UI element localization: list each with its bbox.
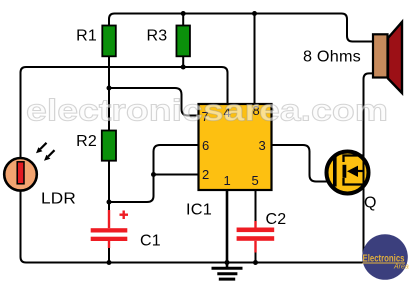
wire C1 bottom to ground rail bbox=[108, 247, 110, 263]
svg-text:Area: Area bbox=[393, 264, 409, 271]
svg-text:8 Ohms: 8 Ohms bbox=[303, 49, 361, 66]
wire top rail from R1 top to speaker bbox=[109, 14, 374, 42]
wire IC pin 3 to MOSFET gate bbox=[271, 145, 336, 182]
svg-text:LDR: LDR bbox=[41, 191, 76, 208]
resistor R1 bbox=[102, 26, 116, 57]
speaker cone bbox=[388, 22, 402, 93]
node junction R3 bottom bbox=[181, 65, 186, 70]
MOSFET channel middle segment bbox=[343, 165, 347, 178]
svg-text:C1: C1 bbox=[140, 233, 161, 250]
svg-text:electronicsarea.com: electronicsarea.com bbox=[26, 93, 388, 128]
svg-text:5: 5 bbox=[252, 173, 259, 188]
transistor Q MOSFET body bbox=[327, 152, 369, 194]
capacitor C1 bbox=[91, 210, 128, 248]
wire node B to IC pin 6 bbox=[109, 145, 199, 202]
wire R3 bottom lead bbox=[182, 56, 184, 67]
wire LDR top to pin 4 rail bbox=[21, 67, 228, 158]
svg-text:2: 2 bbox=[202, 167, 209, 182]
node junction pin1 ground bbox=[225, 260, 230, 265]
node junction C2 bottom bbox=[253, 260, 258, 265]
resistor R2 bbox=[102, 131, 116, 161]
wire R1 bottom to R2 top bbox=[108, 56, 110, 131]
MOSFET channel bottom segment and source stub bbox=[344, 178, 364, 185]
svg-text:IC1: IC1 bbox=[186, 202, 212, 219]
node junction pin2 branch bbox=[151, 172, 156, 177]
wire branch to IC pin 2 bbox=[154, 174, 200, 176]
svg-text:C2: C2 bbox=[266, 211, 287, 228]
wire R2 bottom to node B bbox=[108, 161, 110, 203]
wire node A to IC pin 7 bbox=[109, 88, 199, 116]
IC IC1 555 timer body bbox=[199, 104, 272, 190]
Electronics Area logo bbox=[362, 234, 409, 280]
resistor R3 bbox=[176, 26, 190, 57]
svg-text:R2: R2 bbox=[76, 133, 97, 150]
LDR inner element bbox=[17, 162, 24, 184]
MOSFET drain-source wire through body bbox=[363, 150, 365, 196]
LDR light arrow 2 bbox=[44, 150, 55, 161]
MOSFET gate bar bbox=[333, 156, 337, 187]
svg-text:1: 1 bbox=[224, 173, 231, 188]
MOSFET channel top segment and drain stub bbox=[344, 156, 364, 163]
svg-text:6: 6 bbox=[202, 138, 209, 153]
node junction C1 bottom bbox=[107, 260, 112, 265]
wire R3 top lead bbox=[182, 14, 184, 27]
MOSFET body arrow bbox=[347, 166, 358, 177]
speaker body bbox=[373, 34, 388, 77]
svg-text:R1: R1 bbox=[76, 28, 97, 45]
wire C2 bottom to ground rail bbox=[255, 252, 257, 263]
node A junction R1-R2 bbox=[107, 86, 112, 91]
svg-text:3: 3 bbox=[259, 138, 266, 153]
wire IC pin 5 to C2 bbox=[255, 190, 257, 222]
wire IC pin 1 to ground bbox=[226, 190, 229, 267]
wire node B to C1 top bbox=[108, 202, 110, 211]
node B junction R2/C1 bbox=[107, 200, 112, 205]
LDR light arrow 1 bbox=[36, 143, 47, 154]
ground bbox=[212, 268, 243, 279]
wire bottom ground rail bbox=[21, 190, 365, 263]
node junction top rail R3 bbox=[181, 11, 186, 16]
svg-text:R3: R3 bbox=[147, 28, 168, 45]
LDR photoresistor body bbox=[4, 158, 37, 191]
node junction top rail pin8 bbox=[252, 11, 257, 16]
wire pin 8 drop from top rail bbox=[254, 14, 256, 106]
capacitor C2 bbox=[237, 221, 275, 253]
wire speaker to MOSFET drain-source and ground rail bbox=[364, 73, 375, 262]
svg-text:Q: Q bbox=[364, 195, 377, 212]
